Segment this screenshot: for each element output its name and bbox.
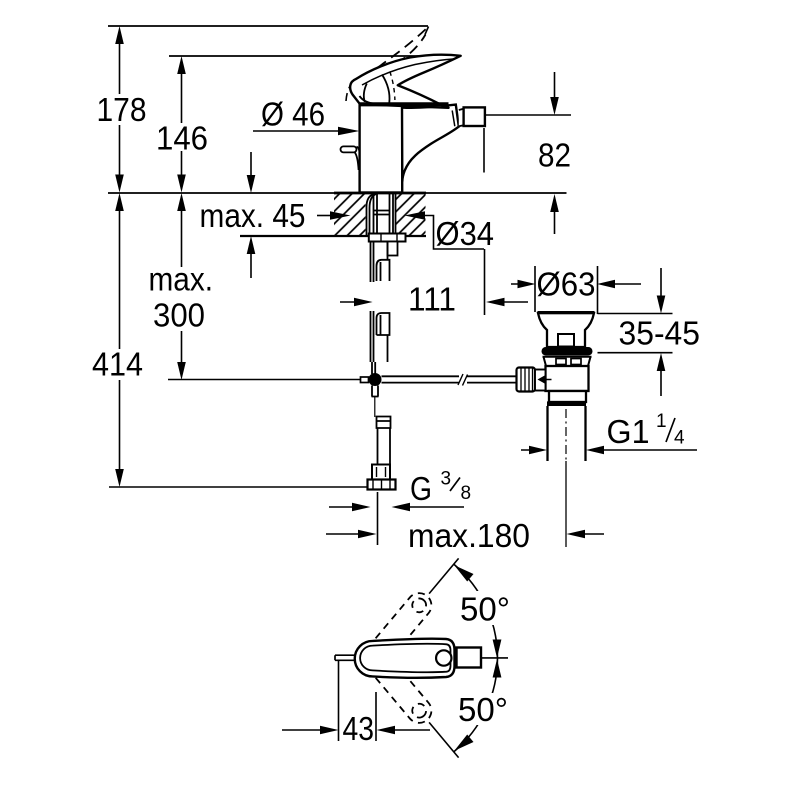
svg-text:50°: 50° [458, 691, 508, 728]
svg-text:Ø63: Ø63 [537, 266, 596, 303]
svg-text:Ø34: Ø34 [436, 215, 495, 252]
svg-text:1: 1 [656, 411, 667, 432]
svg-text:43: 43 [343, 710, 375, 747]
svg-text:414: 414 [92, 346, 143, 383]
svg-text:G: G [410, 470, 432, 507]
svg-text:35-45: 35-45 [619, 315, 701, 352]
svg-text:146: 146 [156, 120, 208, 157]
svg-text:max. 45: max. 45 [200, 197, 306, 234]
svg-text:max.180: max.180 [408, 517, 530, 554]
svg-text:max.: max. [149, 261, 214, 298]
svg-text:50°: 50° [460, 591, 510, 628]
svg-text:4: 4 [674, 428, 685, 449]
svg-text:8: 8 [461, 483, 472, 504]
svg-text:82: 82 [538, 137, 571, 174]
svg-text:178: 178 [97, 91, 147, 128]
svg-text:300: 300 [153, 296, 205, 333]
svg-text:G1: G1 [607, 413, 650, 450]
svg-text:3: 3 [441, 469, 452, 490]
svg-text:111: 111 [408, 281, 456, 318]
svg-text:Ø 46: Ø 46 [261, 96, 325, 133]
